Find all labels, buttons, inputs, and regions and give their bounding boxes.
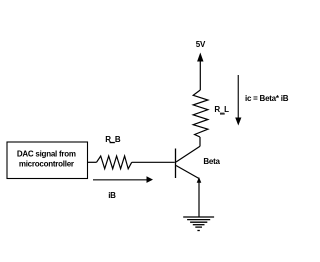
svg-text:microcontroller: microcontroller bbox=[19, 159, 74, 168]
svg-text:iB: iB bbox=[108, 191, 116, 200]
svg-text:DAC signal from: DAC signal from bbox=[17, 149, 76, 158]
svg-text:R_L: R_L bbox=[214, 105, 229, 114]
svg-text:5V: 5V bbox=[196, 40, 206, 49]
svg-text:ic = Beta* iB: ic = Beta* iB bbox=[245, 94, 289, 103]
svg-text:Beta: Beta bbox=[203, 157, 220, 166]
